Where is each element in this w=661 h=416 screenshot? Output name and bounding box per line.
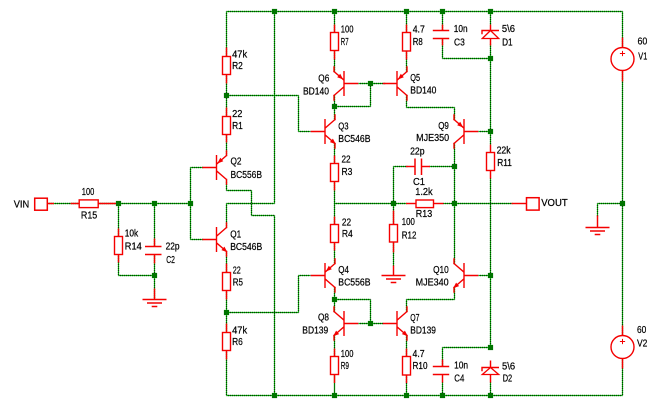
wire (red component lead) (406, 375, 408, 383)
svg-text:D2: D2 (503, 373, 513, 384)
resistor R7 (331, 33, 339, 51)
wire (454, 204, 456, 264)
wire (406, 52, 408, 72)
wire (154, 276, 156, 300)
wire (393, 204, 395, 225)
wire (red component lead) (99, 203, 117, 205)
svg-text:V1: V1 (638, 51, 647, 62)
wire (226, 204, 228, 228)
wire junction (332, 393, 337, 398)
wire (red component lead) (118, 255, 120, 263)
wire junction (440, 393, 445, 398)
capacitor C2 (145, 247, 162, 255)
svg-text:4.7: 4.7 (413, 349, 425, 360)
ground GND1 (143, 300, 167, 307)
wire junction (272, 9, 277, 14)
resistor R12 (390, 225, 398, 243)
wire (490, 383, 492, 396)
svg-text:C4: C4 (454, 373, 464, 384)
svg-text:BC556B: BC556B (338, 277, 370, 288)
wire (red component lead) (334, 25, 336, 33)
wire (442, 39, 444, 59)
wire (622, 12, 624, 48)
svg-text:BC546B: BC546B (230, 242, 262, 253)
wire (335, 299, 371, 301)
resistor R9 (331, 357, 339, 375)
wire (red component lead) (442, 39, 444, 46)
wire (299, 275, 311, 277)
wire (red component lead) (226, 291, 228, 300)
wire (red component lead) (622, 38, 624, 48)
wire junction (440, 9, 445, 14)
wire (red component lead) (490, 39, 492, 46)
wire junction (404, 9, 409, 14)
svg-text:Q4: Q4 (338, 265, 349, 276)
svg-text:R6: R6 (232, 337, 243, 348)
wire (red component lead) (422, 166, 431, 168)
wire (442, 12, 444, 31)
transistor Q4 (312, 259, 336, 292)
port VIN (35, 198, 48, 210)
wire (154, 204, 156, 247)
wire (335, 106, 371, 108)
wire (252, 215, 275, 217)
svg-text:Q9: Q9 (438, 121, 449, 132)
wire (454, 288, 456, 300)
capacitor C3 (433, 31, 449, 39)
wire (191, 239, 204, 241)
wire (red component lead) (118, 229, 120, 237)
svg-text:47k: 47k (232, 50, 248, 61)
svg-text:Q10: Q10 (433, 265, 449, 276)
wire (226, 75, 228, 117)
wire junction (272, 393, 277, 398)
svg-text:1.2k: 1.2k (415, 187, 433, 198)
wire (334, 96, 336, 107)
svg-text:Q1: Q1 (230, 229, 241, 240)
svg-text:Q8: Q8 (318, 313, 329, 324)
svg-text:5\6: 5\6 (502, 24, 516, 35)
wire junction (488, 56, 493, 61)
wire (red component lead) (154, 239, 156, 247)
wire (334, 144, 336, 164)
svg-text:22p: 22p (166, 242, 180, 253)
wire (334, 336, 336, 357)
wire (406, 12, 408, 32)
wire (red component lead) (434, 203, 444, 205)
svg-text:R13: R13 (416, 209, 433, 220)
wire (406, 376, 408, 396)
svg-text:Q3: Q3 (338, 121, 349, 132)
svg-text:22p: 22p (410, 146, 425, 157)
wire (407, 107, 455, 109)
wire junction (368, 321, 373, 326)
wire (442, 383, 444, 396)
wire (393, 242, 395, 266)
capacitor C1 (415, 159, 422, 176)
zener diode D1 (482, 31, 499, 35)
wire (red component lead) (406, 166, 415, 168)
wire (406, 336, 408, 357)
svg-text:BC546B: BC546B (338, 134, 370, 145)
wire (370, 84, 372, 107)
wire (118, 255, 120, 276)
resistor R3 (331, 164, 339, 182)
svg-text:22: 22 (342, 155, 351, 166)
wire (227, 203, 275, 205)
transistor Q9 (454, 115, 478, 148)
resistor R8 (403, 33, 411, 52)
wire junction (224, 310, 229, 315)
wire (334, 182, 336, 225)
svg-text:10n: 10n (454, 361, 468, 372)
svg-text:R8: R8 (413, 37, 423, 48)
wire (red component lead) (154, 255, 156, 264)
wire (370, 300, 372, 324)
resistor R13 (416, 200, 434, 208)
svg-text:R11: R11 (497, 158, 512, 169)
wire (red component lead) (597, 216, 599, 228)
wire (226, 134, 228, 156)
wire (598, 203, 623, 205)
wire (490, 12, 492, 25)
capacitor C4 (433, 367, 449, 375)
svg-text:47k: 47k (232, 326, 248, 337)
svg-text:Q6: Q6 (318, 74, 329, 85)
wire (red component lead) (334, 217, 336, 225)
wire (227, 312, 299, 314)
transistor Q1 (203, 223, 227, 256)
port VOUT (527, 198, 540, 210)
svg-text:22: 22 (342, 218, 352, 229)
wire (490, 132, 492, 145)
svg-text:BD139: BD139 (302, 325, 328, 336)
svg-text:R7: R7 (341, 37, 349, 48)
wire (191, 167, 204, 169)
wire (299, 131, 311, 133)
wire (490, 179, 492, 276)
voltage source V1 (611, 48, 634, 71)
wire (298, 276, 300, 313)
wire (490, 276, 492, 348)
wire (443, 58, 491, 60)
wire (444, 203, 455, 205)
wire (red component lead) (154, 289, 156, 300)
resistor R6 (223, 333, 231, 351)
svg-text:R2: R2 (232, 61, 243, 72)
wire (red component lead) (512, 203, 527, 205)
wire (274, 216, 276, 396)
transistor Q3 (312, 115, 336, 148)
svg-text:BD140: BD140 (410, 86, 436, 97)
wire (334, 375, 336, 396)
wire junction (332, 297, 337, 302)
svg-text:100: 100 (402, 217, 415, 228)
wire (154, 255, 156, 276)
wire (226, 181, 228, 191)
svg-text:R10: R10 (413, 361, 428, 372)
resistor R1 (223, 117, 231, 135)
wire (334, 300, 336, 312)
wire (622, 359, 624, 396)
wire (red component lead) (226, 134, 228, 143)
wire (red component lead) (48, 203, 55, 205)
wire (226, 252, 228, 273)
wire (red component lead) (334, 182, 336, 191)
svg-text:R5: R5 (233, 277, 244, 288)
wire junction (452, 164, 457, 169)
wire junction (620, 201, 625, 206)
wire (359, 83, 386, 85)
wire (red component lead) (490, 171, 492, 179)
wire junction (488, 273, 493, 278)
zener diode D2 (482, 368, 499, 372)
svg-text:R1: R1 (232, 121, 243, 132)
wire junction (368, 81, 373, 86)
wire (407, 299, 455, 301)
wire junction (488, 393, 493, 398)
wire (597, 204, 599, 217)
wire junction (224, 93, 229, 98)
wire (393, 167, 395, 204)
svg-text:10k: 10k (125, 229, 139, 240)
svg-text:60: 60 (637, 325, 647, 336)
transistor Q2 (203, 151, 227, 184)
wire (227, 190, 252, 192)
wire junction (488, 345, 493, 350)
wire (red component lead) (406, 349, 408, 357)
transistor Q10 (454, 259, 478, 292)
svg-text:VIN: VIN (14, 199, 30, 210)
wire (red component lead) (334, 349, 336, 357)
resistor R4 (331, 225, 339, 243)
svg-text:V2: V2 (637, 339, 648, 350)
wire (490, 59, 492, 132)
svg-text:MJE350: MJE350 (416, 133, 449, 144)
ground GND2 (382, 276, 406, 283)
wire junction (488, 129, 493, 134)
wire (red component lead) (490, 375, 492, 383)
wire junction (404, 393, 409, 398)
svg-text:100: 100 (341, 349, 354, 360)
wire junction (152, 273, 157, 278)
svg-text:C3: C3 (454, 38, 465, 49)
wire (227, 395, 623, 397)
wire (red component lead) (442, 360, 444, 367)
svg-text:Q7: Q7 (410, 313, 419, 324)
svg-text:22k: 22k (497, 145, 512, 156)
wire (red component lead) (393, 266, 395, 276)
wire (red component lead) (490, 361, 492, 368)
wire (227, 11, 623, 13)
transistor Q5 (384, 67, 408, 100)
resistor R15 (79, 200, 98, 208)
wire (334, 288, 336, 300)
wire (red component lead) (226, 324, 228, 333)
wire junction (332, 104, 337, 109)
wire (red component lead) (442, 375, 444, 383)
wire (454, 144, 456, 167)
wire junction (188, 201, 193, 206)
svg-text:5\6: 5\6 (502, 362, 516, 373)
wire (251, 191, 253, 216)
wire (406, 96, 408, 108)
voltage source V2 (611, 336, 634, 359)
wire (red component lead) (622, 71, 624, 82)
svg-text:C2: C2 (166, 255, 175, 266)
wire (99, 203, 191, 205)
svg-text:22: 22 (233, 266, 241, 277)
resistor R2 (223, 57, 231, 75)
wire (red component lead) (71, 203, 80, 205)
wire (455, 203, 513, 205)
wire (red component lead) (334, 51, 336, 60)
svg-text:R3: R3 (342, 167, 353, 178)
wire (479, 275, 491, 277)
svg-text:10n: 10n (454, 24, 468, 35)
wire junction (332, 9, 337, 14)
svg-text:R4: R4 (342, 229, 353, 240)
resistor R14 (115, 237, 123, 255)
wire (227, 95, 299, 97)
svg-text:BD139: BD139 (410, 326, 436, 337)
wire (298, 96, 300, 132)
svg-text:BC556B: BC556B (231, 170, 263, 181)
wire (394, 166, 408, 168)
wire junction (152, 201, 157, 206)
svg-text:VOUT: VOUT (541, 198, 568, 209)
wire (334, 243, 336, 264)
wire (118, 204, 120, 237)
wire (red component lead) (226, 264, 228, 273)
wire (119, 275, 155, 277)
wire (red component lead) (334, 375, 336, 384)
wire (red component lead) (406, 25, 408, 33)
wire (334, 12, 336, 32)
wire (335, 203, 407, 205)
transistor Q6 (334, 67, 358, 100)
wire junction (391, 201, 396, 206)
wire (490, 45, 492, 59)
wire (red component lead) (393, 211, 395, 225)
wire (334, 107, 336, 120)
resistor R5 (223, 273, 231, 291)
wire junction (488, 9, 493, 14)
resistor R10 (403, 357, 411, 376)
wire (454, 167, 456, 204)
wire (430, 166, 455, 168)
wire junction (116, 201, 121, 206)
wire (443, 347, 491, 349)
ground GND3 (586, 228, 610, 235)
wire (red component lead) (226, 351, 228, 360)
svg-text:D1: D1 (502, 38, 513, 49)
transistor Q8 (334, 307, 358, 340)
wire (red component lead) (393, 242, 395, 253)
wire (226, 12, 228, 57)
wire (red component lead) (442, 25, 444, 31)
svg-text:100: 100 (341, 24, 354, 35)
svg-text:MJE340: MJE340 (416, 277, 449, 288)
svg-text:60: 60 (638, 37, 648, 48)
wire (red component lead) (622, 359, 624, 369)
wire (48, 203, 80, 205)
wire (red component lead) (226, 48, 228, 57)
wire (red component lead) (490, 25, 492, 31)
svg-text:R9: R9 (341, 361, 349, 372)
svg-text:BD140: BD140 (303, 86, 329, 97)
wire (226, 291, 228, 333)
wire (442, 348, 444, 367)
transistor Q7 (384, 307, 408, 340)
wire (red component lead) (226, 75, 228, 84)
wire (red component lead) (406, 203, 416, 205)
wire (red component lead) (490, 145, 492, 153)
svg-text:22: 22 (232, 109, 243, 120)
wire (454, 108, 456, 120)
wire (red component lead) (226, 108, 228, 117)
wire (red component lead) (406, 51, 408, 60)
svg-text:Q2: Q2 (231, 157, 242, 168)
wire (406, 300, 408, 312)
svg-text:R12: R12 (402, 230, 417, 241)
svg-text:Q5: Q5 (410, 73, 420, 84)
wire (red component lead) (334, 156, 336, 164)
wire (479, 131, 491, 133)
svg-text:R14: R14 (125, 242, 142, 253)
wire (190, 168, 192, 240)
svg-text:4.7: 4.7 (413, 24, 425, 35)
resistor R11 (487, 153, 495, 171)
wire (359, 323, 384, 325)
wire (274, 12, 276, 204)
wire junction (452, 201, 457, 206)
wire (red component lead) (334, 243, 336, 251)
svg-text:100: 100 (82, 187, 95, 198)
wire (622, 71, 624, 337)
wire (226, 351, 228, 396)
wire (red component lead) (622, 326, 624, 337)
svg-text:R15: R15 (81, 211, 98, 222)
wire (334, 52, 336, 72)
